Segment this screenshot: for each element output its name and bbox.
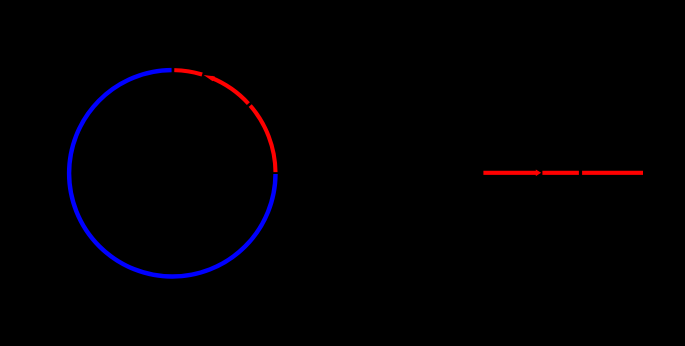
red line dash segment B: [542, 171, 579, 175]
red arc dash segment B (66.8deg to 42.5deg): [211, 78, 248, 104]
red line arrowhead pointing right: [536, 170, 541, 177]
red arc dash segment C (41.0deg to 0.67deg): [250, 106, 275, 173]
red line dash segment C: [582, 171, 643, 175]
red line dash segment A: [483, 171, 536, 175]
red arc dash segment A (top, 88.9deg to 73.2deg): [174, 70, 202, 74]
red arc arrowhead pointing counterclockwise: [204, 75, 215, 81]
blue circle arc (3/4 circle, from top counterclockwise to right): [69, 70, 275, 276]
